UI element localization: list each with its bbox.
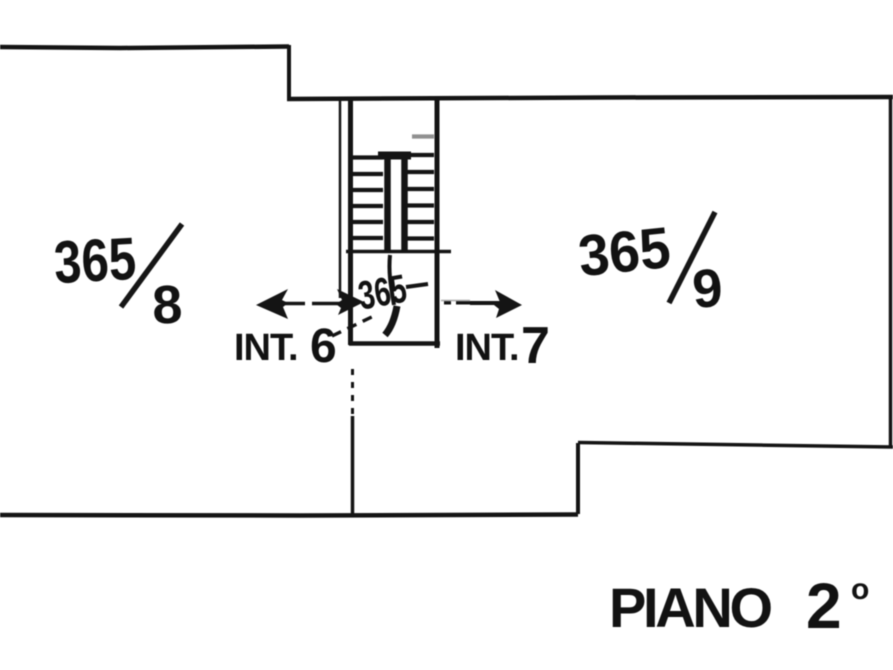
svg-text:365: 365 <box>355 267 410 319</box>
svg-text:INT.: INT. <box>234 327 298 369</box>
svg-text:o: o <box>851 573 869 606</box>
svg-text:8: 8 <box>151 275 183 336</box>
svg-text:365: 365 <box>575 215 673 289</box>
svg-text:2: 2 <box>806 570 842 642</box>
svg-text:7: 7 <box>521 317 550 375</box>
svg-text:9: 9 <box>690 258 724 320</box>
svg-text:6: 6 <box>310 320 337 373</box>
svg-text:365: 365 <box>52 225 137 296</box>
svg-text:PIANO: PIANO <box>609 576 773 639</box>
svg-text:INT.: INT. <box>455 327 519 369</box>
